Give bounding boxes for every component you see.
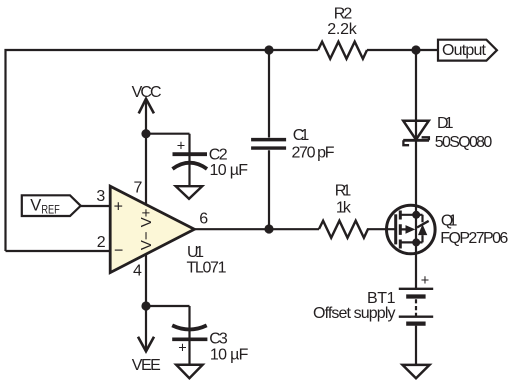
svg-text:+: +	[114, 198, 123, 215]
svg-text:VCC: VCC	[132, 84, 162, 101]
svg-text:1k: 1k	[336, 199, 352, 216]
svg-text:Q1: Q1	[441, 213, 458, 230]
svg-text:2.2k: 2.2k	[327, 21, 358, 38]
svg-text:10 µF: 10 µF	[210, 162, 249, 179]
svg-text:C2: C2	[209, 146, 228, 163]
svg-text:+: +	[421, 273, 429, 289]
svg-text:V−: V−	[138, 231, 155, 250]
svg-text:+: +	[177, 139, 185, 155]
svg-text:+: +	[178, 340, 186, 356]
svg-text:V+: V+	[138, 208, 155, 227]
svg-text:D1: D1	[437, 115, 454, 132]
svg-text:270 pF: 270 pF	[292, 144, 335, 161]
svg-text:VEE: VEE	[132, 357, 161, 374]
svg-text:50SQ080: 50SQ080	[435, 134, 493, 151]
svg-text:R2: R2	[334, 5, 353, 22]
svg-text:Output: Output	[442, 42, 487, 59]
svg-text:3: 3	[96, 188, 105, 205]
svg-text:6: 6	[199, 210, 208, 227]
svg-text:C1: C1	[293, 127, 310, 144]
svg-text:C3: C3	[209, 330, 228, 347]
svg-text:TL071: TL071	[187, 260, 227, 277]
svg-text:FQP27P06: FQP27P06	[440, 230, 508, 247]
svg-text:2: 2	[97, 234, 106, 251]
svg-text:4: 4	[133, 263, 142, 280]
svg-text:R1: R1	[335, 182, 352, 199]
svg-text:−: −	[114, 243, 123, 260]
svg-text:7: 7	[133, 180, 142, 197]
svg-text:10 µF: 10 µF	[210, 347, 249, 364]
svg-text:Offset supply: Offset supply	[313, 305, 396, 322]
svg-text:U1: U1	[187, 244, 204, 261]
